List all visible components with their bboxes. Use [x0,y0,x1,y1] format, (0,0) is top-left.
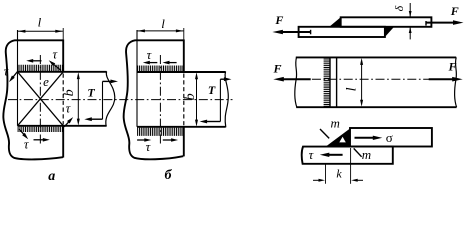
weld section: section line m-m lower tick [354,148,362,156]
plan view: butt weld double line [329,57,331,107]
weld section: tau arrow (left) [328,154,342,156]
weld section: k dimension arrows (outside) [313,179,320,181]
svg-text:e: e [43,74,49,89]
diagram a: strip bottom edge / weld line [18,125,107,127]
plan view: force F left arrow [283,78,311,80]
diagram b: moment T couple symbol [219,79,221,121]
svg-text:δ: δ [392,5,406,11]
diagram a: l dimension line with arrows [25,30,56,32]
lap joint side view: upper plate [341,17,432,27]
svg-text:k: k [336,167,342,181]
diagram b: vertical dash-dot centerline [159,55,161,146]
plan view: plate outline with torn side edges [295,57,297,107]
diagram a: tau arrow right side (up-right) [64,122,69,127]
diagram a: moment T couple symbol [102,81,104,119]
svg-text:m: m [331,116,340,131]
svg-text:T: T [87,86,95,100]
svg-text:F: F [447,60,456,74]
shared horizontal dash-dot centerline of diagrams a and b [8,99,233,101]
diagram a: plate right edge solid upper part [62,39,64,72]
svg-text:T: T [208,83,216,97]
weld section: fillet weld (black triangle) [326,129,350,147]
diagram a: plate right edge solid lower part [62,126,64,158]
lap joint side view: right fillet weld (black triangle) [385,27,394,37]
diagram a: weld comb hatching top [18,65,62,71]
diagram b: plate right edge solid lower part [183,127,185,157]
diagram b: tau arrows top (two, pointing left) [149,62,158,64]
diagram b: tau arrows bottom (two, pointing right) [137,139,145,141]
diagram b: strip bottom edge / weld line [137,126,226,128]
diagram a: vertical dash-dot centerline [39,55,41,146]
lap joint side view: lower plate [299,27,385,37]
diagram b: strip top edge / weld line [137,71,226,73]
diagram a: tau arrow bottom-left corner (down-right) [19,129,24,135]
diagram a: plate right edge hidden (dashed) behind strip [62,74,64,125]
weld section: top plate [350,128,432,147]
svg-text:б: б [165,168,173,183]
diagram a: strip top edge / weld line [18,71,107,73]
diagram a: weld comb hatching bottom [18,127,62,132]
weld section: lower plate [302,147,393,164]
lap joint side view: force F left arrow [310,30,312,35]
diagram b: l dimension line with arrows [145,30,177,32]
svg-text:b: b [62,89,77,96]
lap joint side view: left fillet weld (black triangle) [329,17,340,27]
diagram b: weld comb hatching top [138,66,182,72]
diagram b: plate right edge hidden (dashed) [183,74,185,126]
diagram a: plate with torn edges (vertical plate) [3,40,63,159]
weld section: k dimension extension lines [325,165,327,184]
weld section: section line m-m upper tick [320,129,329,138]
weld section: white throat notch in weld [339,137,346,143]
weld section: sigma arrow (right) [355,137,374,139]
svg-text:F: F [272,62,281,76]
plan view: force F right arrow [429,78,454,80]
plan view: horizontal dash-dot centerline [296,78,456,80]
svg-text:l: l [38,14,42,29]
svg-text:l: l [161,16,165,31]
lap joint side view: force F right arrow [425,21,427,26]
diagram b: b dimension line with arrows [196,79,198,121]
svg-text:F: F [274,13,283,27]
diagram a: diagonal bottom-left to top-right [18,72,64,126]
diagram b: plate with torn edges [124,40,184,159]
svg-text:l: l [345,87,360,91]
svg-text:σ: σ [386,130,393,145]
diagram b: l dimension extension right [183,28,185,39]
diagram a: tau arrow top-right corner (up-left) [53,64,61,70]
lap joint side view: delta thickness dimension [409,3,411,12]
diagram a: horizontal strip end edge (left, solid) [17,30,19,126]
diagram b: strip end edge (left, solid) [136,30,138,127]
diagram a: diagonal top-left to bottom-right [18,72,64,126]
diagram b: strip torn right edge [225,72,228,128]
diagram b: weld comb hatching bottom [138,128,182,136]
diagram b: plate right edge solid upper part [183,39,185,72]
diagram a: strip torn right edge [106,71,115,126]
plan view: weld comb hatching (teeth to the left) [324,58,330,106]
svg-text:а: а [48,169,55,184]
diagram a: tau arrow top (left-pointing) [32,60,41,62]
svg-text:m: m [362,147,371,162]
diagram a: tau arrow left side (down-left) [13,72,18,78]
diagram a: l dimension extension right [62,28,64,39]
svg-text:F: F [450,4,459,18]
plan view: l dimension line with arrows [361,64,363,102]
diagram a: tau arrow bottom (right-pointing) [34,139,44,141]
diagram a: b dimension line with arrows [77,79,79,120]
